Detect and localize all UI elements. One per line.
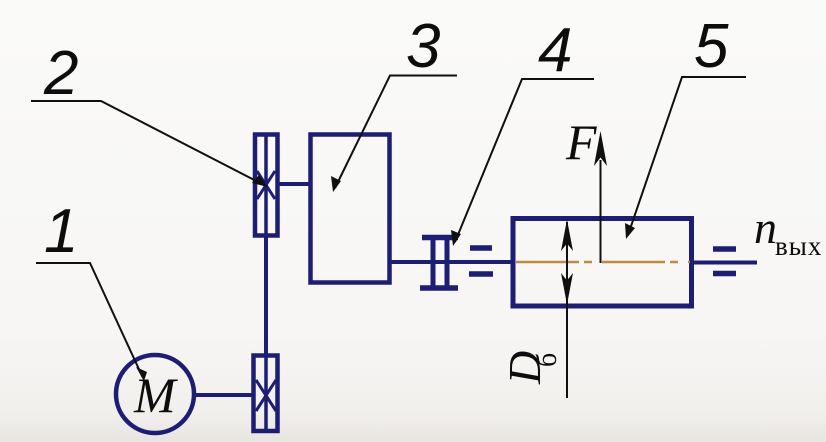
svg-text:1: 1 [44, 197, 78, 266]
svg-text:M: M [133, 367, 178, 423]
callout 5 (drum) [625, 12, 746, 239]
label D_b (rotated) [499, 351, 563, 385]
callout 3 (gearbox) [331, 12, 457, 192]
drum diameter dimension line [561, 220, 573, 399]
lower pulley (belt drive) [254, 355, 278, 431]
motor M1 [116, 355, 194, 433]
upper pulley (belt drive) [255, 134, 278, 236]
shaft upper pulley to gearbox [277, 182, 310, 186]
svg-text:2: 2 [43, 39, 78, 108]
svg-text:4: 4 [538, 16, 572, 85]
shaft motor to lower pulley [194, 393, 253, 397]
gearbox (reducer) [311, 135, 390, 283]
belt line between pulleys [264, 236, 268, 355]
svg-text:5: 5 [694, 12, 729, 81]
svg-text:F: F [565, 114, 597, 170]
svg-text:вых: вых [775, 231, 822, 261]
svg-text:3: 3 [406, 12, 440, 81]
output shaft gearbox to drum [390, 260, 513, 264]
callout 4 (coupling) [451, 16, 594, 246]
left bearing [469, 248, 493, 274]
callout 2 (belt drive) [31, 39, 268, 187]
svg-text:n: n [754, 202, 777, 253]
drum [513, 219, 692, 307]
callout 1 (motor) [36, 197, 147, 381]
right bearing [713, 249, 736, 274]
coupling [420, 236, 458, 289]
svg-text:б: б [532, 353, 563, 367]
label n_vyh [754, 202, 822, 261]
force F line [594, 131, 607, 263]
shaft drum output right [694, 261, 757, 265]
drum centerline [516, 261, 690, 264]
